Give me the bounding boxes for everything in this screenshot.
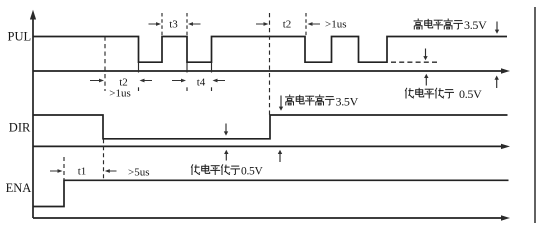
down arrow right of 3.5V text (PUL high) bbox=[496, 22, 498, 31]
t2 bottom right arrow bbox=[144, 80, 152, 82]
svg-text:0.5V: 0.5V bbox=[459, 87, 482, 101]
svg-text:t4: t4 bbox=[197, 76, 206, 88]
svg-text:3.5V: 3.5V bbox=[336, 95, 359, 109]
PUL time axis bbox=[33, 70, 501, 72]
text 高电平高于3.5V (top right) bbox=[414, 18, 488, 32]
ENA waveform bbox=[33, 180, 509, 206]
up arrow to PUL axis far right bbox=[496, 79, 498, 88]
ENA axis right arrowhead bbox=[501, 215, 510, 220]
svg-text:DIR: DIR bbox=[9, 121, 31, 135]
dashed low-level reference line bbox=[391, 61, 440, 63]
edge extension to axis x=211.5 bbox=[211, 62, 213, 72]
t1 left arrow bbox=[50, 170, 58, 172]
dashed above falling edge x=306 (t2 right) bbox=[305, 13, 307, 37]
PUL axis right arrowhead bbox=[501, 68, 510, 73]
measurement arrows bbox=[50, 22, 320, 173]
edge extension to axis x=187 bbox=[186, 62, 188, 72]
dashed above rising edge x=162 (t3 left) bbox=[161, 13, 163, 37]
dashed above ENA rising edge x=64 (t1 left) bbox=[63, 157, 65, 180]
svg-text:>1us: >1us bbox=[109, 88, 130, 100]
text 高电平高于3.5V (DIR high) bbox=[285, 95, 359, 109]
dashed marker at x=105 (DIR change ref in PUL) bbox=[104, 37, 106, 92]
t4 left arrow bbox=[172, 80, 181, 82]
DIR time axis bbox=[33, 145, 501, 147]
long dashed line x=269.5 (t2 left, down to DIR rising edge) bbox=[269, 13, 271, 115]
up/down pointer arrows bbox=[224, 22, 499, 163]
right table border bbox=[534, 7, 536, 223]
t3 right arrow bbox=[193, 23, 201, 25]
axis arrowheads bbox=[30, 10, 510, 221]
DIR axis right arrowhead bbox=[501, 144, 510, 149]
down arrow to DIR high line bbox=[280, 96, 282, 108]
edge extension to axis x=138.5 bbox=[138, 62, 140, 72]
t4 right arrow bbox=[217, 80, 225, 82]
vertical axis up arrowhead bbox=[30, 10, 36, 20]
ENA time axis bbox=[33, 217, 501, 219]
svg-text:>5us: >5us bbox=[128, 166, 149, 178]
svg-text:t2: t2 bbox=[283, 19, 292, 31]
svg-text:0.5V: 0.5V bbox=[241, 166, 263, 178]
svg-text:3.5V: 3.5V bbox=[464, 18, 487, 32]
dashed below DIR falling edge x=103.5 (t1 right) bbox=[103, 139, 105, 180]
text 低电平低于 0.5V (PUL low) bbox=[405, 87, 482, 101]
svg-text:t2: t2 bbox=[119, 76, 128, 88]
svg-text:PUL: PUL bbox=[8, 30, 32, 44]
up arrow to PUL axis (low level text) bbox=[425, 77, 427, 85]
down arrow to dashed low reference bbox=[425, 49, 427, 57]
DIR waveform bbox=[33, 115, 508, 139]
text 低电平低于0.5V (DIR low) bbox=[191, 164, 263, 177]
t2 top left arrow bbox=[256, 23, 264, 25]
dash below axis x=187 bbox=[186, 87, 188, 91]
up arrow to DIR axis (low level text) bbox=[225, 153, 227, 160]
PUL waveform bbox=[33, 37, 507, 63]
t2 top right arrow bbox=[312, 23, 320, 25]
t3 left arrow bbox=[149, 23, 157, 25]
up arrow to DIR axis near rising edge bbox=[279, 153, 281, 162]
svg-text:ENA: ENA bbox=[6, 181, 32, 195]
dashed above falling edge x=187 (t3 right) bbox=[186, 13, 188, 37]
svg-text:t3: t3 bbox=[169, 19, 178, 31]
t2 bottom left arrow bbox=[90, 80, 99, 82]
down arrow to DIR low line bbox=[225, 124, 227, 133]
svg-text:t1: t1 bbox=[78, 166, 87, 178]
dash below axis x=211.5 bbox=[211, 87, 213, 91]
dashed annotation lines bbox=[139, 13, 307, 91]
vertical axis (shared signal axis, arrow up) bbox=[32, 16, 34, 218]
svg-text:>1us: >1us bbox=[325, 19, 346, 31]
t1 right arrow bbox=[109, 170, 116, 172]
dash below axis x=138.5 bbox=[138, 87, 140, 91]
